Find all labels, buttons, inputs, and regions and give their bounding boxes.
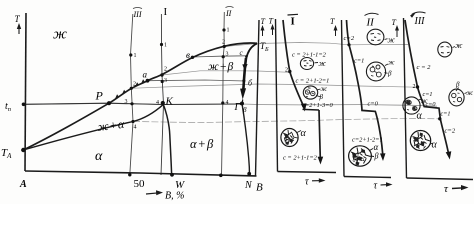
svg-text:2: 2 <box>164 67 167 73</box>
svg-text:ж: ж <box>421 97 428 105</box>
svg-text:2: 2 <box>133 82 136 88</box>
svg-text:ж: ж <box>388 36 396 45</box>
transfer line peritectic tn-P-K-G to panels <box>24 103 438 106</box>
svg-text:в: в <box>186 50 190 60</box>
svg-text:А: А <box>19 179 27 190</box>
panel III microstructure liquid <box>438 42 455 57</box>
svg-text:c=2: c=2 <box>344 35 355 42</box>
transfer line solidus point 4 <box>133 118 440 122</box>
panel II microstructure liquid+beta <box>366 62 388 81</box>
tie line v-c <box>193 56 247 57</box>
panel II microstructure liquid <box>367 29 387 45</box>
panel I microstructure alpha <box>281 129 301 147</box>
svg-text:c=2+1-3=0: c=2+1-3=0 <box>302 102 333 109</box>
arrowhead on beta solidus mid <box>242 64 247 71</box>
svg-text:α: α <box>432 140 438 151</box>
svg-text:W: W <box>175 179 185 191</box>
svg-text:III: III <box>414 16 426 27</box>
axis arrow B% <box>146 193 159 194</box>
T arrow left axis <box>18 25 20 34</box>
svg-text:3: 3 <box>226 52 229 58</box>
peritectic line overdraw <box>24 103 243 104</box>
svg-text:β: β <box>242 106 247 114</box>
alloy line I <box>161 14 164 175</box>
svg-text:3: 3 <box>125 99 128 105</box>
svg-text:50: 50 <box>134 178 146 190</box>
svg-text:В: В <box>256 182 263 194</box>
svg-text:β: β <box>455 81 460 89</box>
arrows on liquidus toward P <box>115 94 119 100</box>
solidus TA-4-K <box>23 104 163 150</box>
panel II microstructure alpha+beta <box>349 146 374 166</box>
svg-text:В, %: В, % <box>165 191 184 202</box>
panel I cooling curve <box>283 20 304 106</box>
svg-text:2: 2 <box>222 40 225 46</box>
point b dot <box>242 79 245 82</box>
svg-text:2: 2 <box>413 84 416 90</box>
panel I axis <box>276 19 278 172</box>
big arrowhead to G <box>240 88 246 99</box>
transfer line liquidus III <box>131 84 417 88</box>
svg-text:τ: τ <box>374 181 378 192</box>
alloy line II <box>222 12 225 176</box>
svg-text:4: 4 <box>226 100 229 106</box>
svg-text:I: I <box>164 6 168 18</box>
transfer line liquidus II <box>224 43 408 47</box>
svg-text:β: β <box>319 93 324 101</box>
svg-text:c=1: c=1 <box>354 58 364 65</box>
svg-text:II: II <box>366 17 376 29</box>
point G with beta <box>240 102 244 106</box>
svg-text:ж: ж <box>388 59 395 67</box>
svg-text:4: 4 <box>156 100 159 106</box>
axis T left <box>25 13 26 171</box>
panel I microstructure liquid+beta <box>303 86 321 99</box>
svg-text:c = 2: c = 2 <box>417 64 432 71</box>
svg-text:c=0: c=0 <box>368 100 379 107</box>
alloy line III <box>130 14 133 175</box>
svg-text:ж: ж <box>53 27 67 43</box>
panel I microstructure liquid <box>300 58 318 70</box>
svg-text:α: α <box>301 128 307 139</box>
svg-text:c = 2+1-1=2: c = 2+1-1=2 <box>283 155 318 162</box>
svg-text:τ: τ <box>305 177 309 188</box>
numbered dots alloy II <box>222 28 225 31</box>
svg-text:I: I <box>291 16 295 28</box>
beta solvus G-N <box>242 104 250 176</box>
svg-text:T: T <box>392 18 397 27</box>
svg-text:3: 3 <box>164 78 167 84</box>
svg-text:ж: ж <box>321 85 328 93</box>
numbered dots alloy III <box>129 53 132 56</box>
panel II cooling curve <box>347 20 383 155</box>
svg-text:β: β <box>387 70 392 78</box>
liquidus TA-P-a-v-TB <box>23 43 257 150</box>
svg-text:c = 2+1-2=1: c = 2+1-2=1 <box>296 78 330 85</box>
svg-text:c=1: c=1 <box>441 111 451 118</box>
panel III microstructure liquid+beta <box>449 88 467 106</box>
svg-text:ж: ж <box>467 89 474 97</box>
svg-text:T: T <box>261 17 266 26</box>
svg-text:4: 4 <box>134 125 137 131</box>
svg-text:2: 2 <box>285 68 288 74</box>
svg-text:a: a <box>143 70 148 80</box>
bottom axis marks <box>128 173 131 176</box>
point a <box>146 79 150 83</box>
svg-text:К: К <box>165 96 174 108</box>
svg-text:α: α <box>417 111 423 122</box>
axis B right <box>256 20 260 176</box>
svg-text:β: β <box>374 152 379 161</box>
svg-text:II: II <box>225 9 232 18</box>
panel III axis <box>404 18 407 178</box>
panel III microstructure alpha <box>410 131 432 151</box>
svg-text:α: α <box>95 149 103 164</box>
svg-text:1: 1 <box>227 28 230 34</box>
panel III microstructure zh+alpha <box>403 97 421 114</box>
panel III cooling curve <box>405 20 449 154</box>
svg-text:c=2: c=2 <box>445 128 456 135</box>
svg-text:P: P <box>95 89 104 103</box>
svg-text:1: 1 <box>134 53 137 59</box>
point v <box>191 56 194 59</box>
svg-text:Г: Г <box>234 102 241 113</box>
transfer line liquidus I <box>162 71 290 75</box>
svg-text:T: T <box>269 17 274 26</box>
tie line a-b <box>148 80 246 81</box>
svg-text:T: T <box>330 17 335 26</box>
beta solidus TB-c-b-G with arrows <box>244 44 257 78</box>
point P <box>107 101 111 105</box>
panel II axis <box>342 20 345 177</box>
numbered dots alloy I <box>160 43 163 46</box>
svg-text:N: N <box>244 180 253 191</box>
svg-text:ж: ж <box>455 41 463 50</box>
svg-text:ж+β: ж+β <box>208 61 234 73</box>
svg-text:III: III <box>133 10 142 19</box>
solvus K-W <box>163 104 172 175</box>
point K <box>161 101 165 105</box>
svg-text:ж: ж <box>319 59 327 68</box>
axis composition bottom <box>25 171 257 176</box>
svg-text:1: 1 <box>164 43 167 49</box>
svg-text:α+β: α+β <box>190 137 214 151</box>
svg-text:α: α <box>374 142 379 152</box>
